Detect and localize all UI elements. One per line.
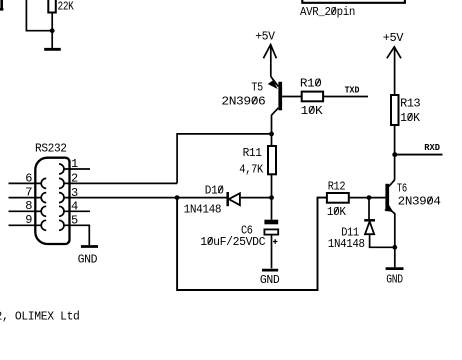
svg-text:GND: GND xyxy=(386,272,403,286)
pin 6 xyxy=(9,178,47,188)
pin 4 xyxy=(59,206,90,216)
wire pin2 up to top net xyxy=(177,134,271,184)
slashed-zero strokes for schematic font xyxy=(208,7,432,244)
svg-text:2N3906: 2N3906 xyxy=(221,95,265,109)
svg-text:1N4148: 1N4148 xyxy=(184,203,222,217)
wire R13 to RXD node xyxy=(394,125,396,180)
ground bar C6 xyxy=(262,269,278,272)
pin 7 xyxy=(9,193,47,203)
ground bar pin5 xyxy=(81,245,98,248)
capacitor C6 top plate xyxy=(264,220,278,225)
+5V arrow T5 xyxy=(263,45,276,77)
junction dot top net / R11 xyxy=(269,132,274,137)
svg-text:8: 8 xyxy=(25,199,32,213)
wire 22K to ground xyxy=(51,13,53,49)
pin 1 xyxy=(59,164,90,174)
T6 base bar xyxy=(385,184,389,211)
wire from top to 22K junction xyxy=(26,0,52,31)
svg-text:D10: D10 xyxy=(205,184,224,198)
+5V arrow R13 xyxy=(387,47,401,95)
transistor T6 collector diagonal xyxy=(389,180,395,186)
pin 8 xyxy=(9,206,47,216)
IC box corner fragment top-left xyxy=(0,0,3,9)
resistor 22K box xyxy=(48,0,56,13)
T5 collector diagonal xyxy=(272,108,279,134)
pin 3 xyxy=(59,193,227,203)
svg-text:3: 3 xyxy=(71,186,78,200)
wire R12 to T6 base xyxy=(349,197,369,199)
svg-text:GND: GND xyxy=(260,273,280,287)
svg-text:5: 5 xyxy=(71,214,78,228)
svg-text:1: 1 xyxy=(71,157,78,171)
svg-text:+5V: +5V xyxy=(255,30,276,44)
wire D11 to emitter net xyxy=(370,234,395,247)
T6 emitter arrowhead xyxy=(384,205,393,212)
svg-text:2: 2 xyxy=(71,172,78,186)
svg-text:1N4148: 1N4148 xyxy=(328,237,365,251)
T6 base wire xyxy=(369,197,385,199)
T5 base wire to R10 xyxy=(282,96,302,98)
ground bar xyxy=(44,48,61,51)
svg-text:R13: R13 xyxy=(400,97,420,111)
pin 5 xyxy=(59,220,89,245)
svg-text:RXD: RXD xyxy=(424,143,440,153)
wire R11 to pin3 net xyxy=(271,174,273,197)
resistor R12 box xyxy=(327,193,349,203)
C6 plus sign xyxy=(273,239,277,243)
svg-text:2N3904: 2N3904 xyxy=(398,194,441,208)
T5 base bar xyxy=(278,82,282,111)
svg-text:7: 7 xyxy=(25,186,32,200)
svg-text:R10: R10 xyxy=(300,77,322,91)
wire node to C6 xyxy=(271,198,273,220)
svg-text:T5: T5 xyxy=(251,81,263,95)
svg-text:10K: 10K xyxy=(301,104,324,118)
resistor R10 box xyxy=(302,92,323,102)
svg-text:GND: GND xyxy=(78,253,98,267)
junction dot C6 node xyxy=(269,195,274,200)
wire D10 to C6 node xyxy=(240,197,272,199)
svg-text:10K: 10K xyxy=(327,205,347,219)
wire to R11 xyxy=(271,134,273,146)
junction dot emitter net xyxy=(392,245,397,250)
junction dot T6 base xyxy=(367,195,372,200)
svg-text:+5V: +5V xyxy=(383,31,405,45)
capacitor C6 bottom plate xyxy=(264,229,278,234)
transistor T5 emitter diagonal xyxy=(271,77,279,87)
wire pin3 down and along bottom xyxy=(177,198,327,290)
junction dot RXD xyxy=(392,152,397,157)
svg-text:6: 6 xyxy=(25,171,32,185)
diode D11 cathode bar xyxy=(364,219,375,222)
svg-text:9: 9 xyxy=(25,213,32,227)
svg-text:4,7K: 4,7K xyxy=(239,162,264,176)
svg-text:R11: R11 xyxy=(243,146,262,160)
svg-text:T6: T6 xyxy=(397,181,407,195)
svg-text:10uF/25VDC: 10uF/25VDC xyxy=(200,235,265,249)
resistor R13 box xyxy=(391,95,399,125)
AVR_20pin box bottom edge xyxy=(302,0,405,3)
wire T6 base to D11 xyxy=(368,198,370,219)
connector X1 outline xyxy=(35,158,69,244)
diode D11 triangle xyxy=(365,222,374,235)
svg-text:TXD: TXD xyxy=(345,86,360,96)
svg-text:2, OLIMEX Ltd: 2, OLIMEX Ltd xyxy=(0,310,80,324)
svg-text:22K: 22K xyxy=(58,0,75,13)
diode D10 triangle xyxy=(229,193,240,205)
svg-text:R12: R12 xyxy=(328,180,346,194)
wire C6 to ground xyxy=(271,235,273,269)
svg-text:AVR_20pin: AVR_20pin xyxy=(300,5,355,19)
T5 emitter arrowhead xyxy=(268,80,278,89)
wire R10 to TXD xyxy=(323,96,368,98)
T6 emitter diagonal xyxy=(389,209,395,268)
RXD wire xyxy=(395,154,443,156)
ground bar T6 xyxy=(386,267,404,270)
pin 9 xyxy=(9,220,47,230)
pin 2 xyxy=(59,178,177,188)
junction dot xyxy=(50,28,55,33)
diode D10 cathode bar xyxy=(226,192,229,206)
svg-text:RS232: RS232 xyxy=(35,142,67,156)
resistor R11 box xyxy=(268,146,276,174)
svg-text:10K: 10K xyxy=(400,111,421,125)
junction dot pin3 branch xyxy=(175,195,180,200)
svg-text:4: 4 xyxy=(71,200,78,214)
